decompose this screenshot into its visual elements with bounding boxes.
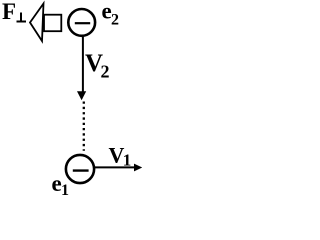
- V2 arrowhead: [77, 91, 86, 100]
- label e2: [102, 0, 120, 29]
- minus sign in e1: [73, 169, 89, 171]
- svg-text:2: 2: [101, 62, 110, 82]
- minus sign in e2: [75, 22, 90, 24]
- label e1: [52, 171, 70, 199]
- svg-text:1: 1: [123, 151, 132, 170]
- wire: V1 velocity arrow shaft: [95, 166, 134, 168]
- V1 arrowhead: [134, 164, 142, 172]
- electron e1 circle: [66, 155, 94, 183]
- svg-text:F: F: [2, 0, 16, 24]
- electron e2 circle: [68, 9, 95, 36]
- svg-text:2: 2: [111, 12, 119, 29]
- label V1: [109, 143, 132, 170]
- force block arrow (hollow, pointing left): [30, 4, 61, 42]
- svg-text:1: 1: [61, 182, 69, 199]
- label V2: [85, 50, 110, 82]
- wire: V2 velocity arrow shaft: [82, 37, 84, 93]
- dotted path between e2 and e1: [83, 102, 85, 151]
- label F-perpendicular: [2, 0, 26, 24]
